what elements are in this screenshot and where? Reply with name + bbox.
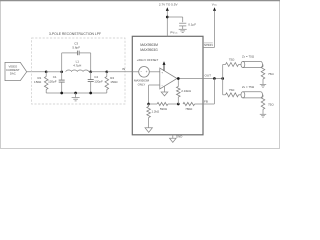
- svg-text:3-POLE RECONSTRUCTION LPF: 3-POLE RECONSTRUCTION LPF: [49, 32, 101, 36]
- wire node A to node B: [46, 71, 62, 73]
- svg-text:Z0 = 75Ω: Z0 = 75Ω: [242, 85, 255, 89]
- coax cable Z0=75&#937; (top): [243, 60, 261, 62]
- inductor L1 4.7&#181;H: [66, 70, 89, 72]
- svg-text:150Ω: 150Ω: [34, 80, 42, 84]
- svg-text:PVCC: PVCC: [170, 30, 178, 34]
- svg-text:75Ω: 75Ω: [268, 72, 274, 76]
- capacitor C1 120pF: [61, 72, 63, 80]
- svg-text:FB: FB: [204, 100, 208, 104]
- wire DAC output to node A: [27, 71, 47, 73]
- junction rail/ground: [74, 92, 77, 95]
- ground (bypass cap): [179, 28, 187, 30]
- wire OUT pin to split: [203, 78, 223, 80]
- node I (branch split): [221, 77, 224, 80]
- resistor 75&#937; (bottom series): [223, 94, 226, 96]
- svg-text:5.6pF: 5.6pF: [72, 46, 80, 50]
- svg-text:IN: IN: [122, 67, 125, 71]
- svg-text:780Ω: 780Ω: [185, 107, 193, 111]
- svg-text:4.7µH: 4.7µH: [73, 63, 81, 67]
- svg-text:+60mV OFFSET: +60mV OFFSET: [137, 58, 159, 62]
- resistor 1.2k&#937;: [148, 104, 150, 107]
- svg-text:SHDN: SHDN: [204, 43, 213, 47]
- dashed box: 3-pole reconstruction LPF: [32, 38, 126, 104]
- resistor R1 150&#937;: [45, 72, 47, 77]
- svg-text:120pF: 120pF: [48, 79, 57, 83]
- node E (inverting input junction): [147, 103, 150, 106]
- svg-text:0.1µF: 0.1µF: [188, 23, 196, 27]
- node A (DAC/R1 junction): [45, 70, 48, 73]
- wire IN pin to offset source: [132, 71, 138, 73]
- svg-text:DAC: DAC: [10, 72, 16, 76]
- svg-text:75Ω: 75Ω: [229, 88, 235, 92]
- junction C1 bottom: [60, 92, 63, 95]
- resistor 780&#937;: [183, 102, 195, 105]
- svg-text:MAX9503M: MAX9503M: [140, 43, 158, 47]
- svg-text:Z0 = 75Ω: Z0 = 75Ω: [242, 55, 255, 59]
- ground (LPF): [75, 93, 77, 98]
- svg-text:2.34kΩ: 2.34kΩ: [181, 89, 191, 93]
- node F (590/780/2.34k junction): [177, 103, 180, 106]
- svg-text:2.7V TO 5.5V: 2.7V TO 5.5V: [159, 3, 179, 7]
- wire SHDN pin: [203, 46, 215, 48]
- resistor 75&#937; (bottom load): [262, 94, 265, 96]
- svg-text:75Ω: 75Ω: [229, 58, 235, 62]
- wire node C to node D: [91, 71, 107, 73]
- IC U1 MAX9503M/MAX9503G outline: [132, 36, 203, 135]
- op-amp supply arrow: [163, 65, 165, 71]
- svg-text:VCC: VCC: [212, 3, 218, 7]
- node C (L1/C2 junction): [89, 70, 92, 73]
- ground (GND pin): [172, 135, 174, 138]
- video current DAC source block: [5, 62, 27, 80]
- ground (bottom load): [260, 113, 266, 115]
- capacitor 0.1&#181;F bypass: [167, 16, 182, 18]
- ground (internal): [145, 128, 152, 133]
- svg-text:−: −: [140, 70, 142, 74]
- svg-text:150Ω: 150Ω: [110, 80, 118, 84]
- node D (R2 top junction): [105, 70, 108, 73]
- capacitor C3 5.6pF (parallel with L1): [61, 53, 63, 72]
- resistor 75&#937; (top series): [223, 64, 226, 66]
- junction C2 bottom: [89, 92, 92, 95]
- wire node D to IN pin: [107, 71, 133, 73]
- svg-text:ONLY: ONLY: [138, 83, 146, 87]
- svg-text:MAX9503G: MAX9503G: [140, 48, 158, 52]
- resistor 2.34k&#937;: [177, 79, 179, 87]
- node H (FB tap): [213, 77, 216, 80]
- op-amp ground: [164, 86, 166, 92]
- coax cable Z0=75&#937; (bottom): [243, 91, 261, 93]
- svg-text:590Ω: 590Ω: [160, 107, 168, 111]
- svg-text:GND: GND: [176, 135, 182, 139]
- wire LPF ground rail: [46, 92, 107, 94]
- capacitor C2 120pF: [90, 72, 92, 80]
- wire op-amp output to OUT pin: [177, 78, 203, 80]
- svg-text:+: +: [146, 70, 148, 74]
- resistor 590&#937;: [149, 103, 158, 105]
- resistor R2 150&#937;: [106, 72, 108, 77]
- op-amp U1a: [160, 68, 177, 89]
- svg-text:+: +: [161, 70, 163, 74]
- wire op-amp - input: [149, 84, 160, 86]
- junction supply/bypass: [166, 16, 169, 19]
- svg-text:1.2kΩ: 1.2kΩ: [152, 109, 160, 113]
- ground (top load): [260, 83, 266, 85]
- resistor 75&#937; (top load): [262, 64, 265, 66]
- wire FB pin to node H: [203, 103, 214, 105]
- svg-text:75Ω: 75Ω: [268, 103, 274, 107]
- node G (2.34k tap on output): [177, 77, 180, 80]
- wire branch split arm: [222, 65, 224, 95]
- wire offset source to op-amp + input: [149, 71, 160, 73]
- svg-text:120pF: 120pF: [94, 79, 103, 83]
- svg-text:OUT: OUT: [205, 73, 212, 77]
- node B (C1 top junction): [60, 70, 63, 73]
